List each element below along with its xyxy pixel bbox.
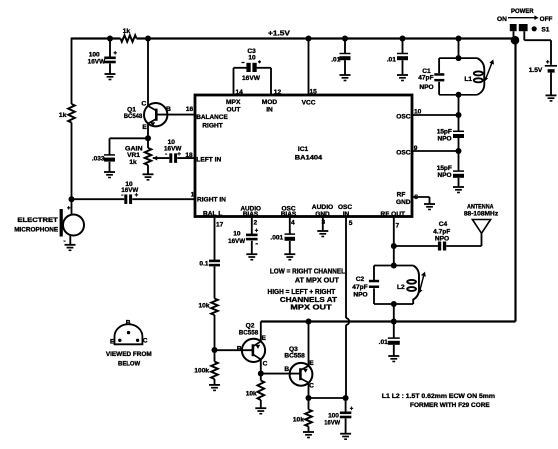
svg-text:100k: 100k bbox=[194, 367, 209, 374]
svg-text:OSC: OSC bbox=[396, 150, 411, 157]
svg-text:16VW: 16VW bbox=[228, 238, 246, 245]
svg-text:IN: IN bbox=[266, 107, 273, 114]
svg-text:10k: 10k bbox=[246, 391, 257, 398]
svg-text:.01: .01 bbox=[331, 56, 340, 63]
svg-text:16VW: 16VW bbox=[242, 75, 261, 82]
svg-text:NPO: NPO bbox=[419, 84, 433, 91]
svg-text:+: + bbox=[177, 151, 181, 158]
svg-text:E: E bbox=[309, 360, 314, 367]
svg-text:LEFT IN: LEFT IN bbox=[196, 157, 221, 164]
svg-text:.001: .001 bbox=[270, 235, 283, 242]
svg-text:+: + bbox=[255, 229, 259, 235]
svg-text:IC1: IC1 bbox=[298, 146, 309, 153]
svg-text:9: 9 bbox=[414, 145, 418, 152]
svg-text:BC548: BC548 bbox=[124, 113, 143, 120]
svg-text:NPO: NPO bbox=[353, 292, 367, 299]
svg-text:Q2: Q2 bbox=[246, 322, 255, 329]
svg-text:10: 10 bbox=[233, 231, 241, 238]
svg-text:10: 10 bbox=[414, 109, 422, 116]
svg-text:+1.5V: +1.5V bbox=[268, 31, 290, 38]
svg-text:B: B bbox=[166, 106, 171, 113]
svg-text:E: E bbox=[110, 338, 115, 345]
svg-text:NPO: NPO bbox=[435, 236, 449, 243]
svg-text:18: 18 bbox=[185, 152, 193, 159]
svg-text:OSC: OSC bbox=[338, 204, 352, 211]
svg-text:LOW = RIGHT CHANNEL: LOW = RIGHT CHANNEL bbox=[270, 268, 346, 275]
svg-text:NPO: NPO bbox=[437, 172, 451, 179]
svg-text:B: B bbox=[126, 320, 131, 327]
svg-text:1k: 1k bbox=[129, 159, 137, 166]
svg-text:L2: L2 bbox=[397, 284, 405, 291]
svg-text:.01: .01 bbox=[379, 339, 388, 346]
svg-text:+: + bbox=[113, 50, 117, 57]
svg-text:+: + bbox=[67, 205, 71, 212]
svg-text:16: 16 bbox=[186, 106, 194, 113]
svg-text:C: C bbox=[141, 100, 146, 107]
svg-text:C: C bbox=[263, 361, 268, 368]
svg-text:4: 4 bbox=[291, 220, 295, 227]
svg-text:+: + bbox=[546, 59, 550, 66]
svg-text:AT MPX OUT: AT MPX OUT bbox=[295, 277, 340, 284]
svg-text:47pF: 47pF bbox=[418, 75, 433, 82]
svg-text:ANTENNA: ANTENNA bbox=[467, 204, 494, 211]
svg-text:10k: 10k bbox=[293, 417, 304, 424]
svg-text:15pF: 15pF bbox=[437, 128, 452, 135]
svg-text:IN: IN bbox=[343, 211, 350, 218]
svg-text:RF: RF bbox=[397, 192, 406, 199]
svg-text:C: C bbox=[309, 383, 314, 390]
svg-text:+: + bbox=[350, 407, 354, 413]
svg-text:MPX: MPX bbox=[226, 99, 241, 106]
svg-text:BIAS: BIAS bbox=[281, 211, 297, 218]
svg-text:L1: L1 bbox=[464, 76, 472, 83]
svg-text:ON: ON bbox=[497, 16, 507, 23]
svg-text:POWER: POWER bbox=[511, 8, 534, 15]
svg-text:2: 2 bbox=[254, 220, 258, 227]
svg-text:5: 5 bbox=[349, 220, 353, 227]
svg-text:0.1: 0.1 bbox=[199, 260, 208, 267]
svg-text:+: + bbox=[135, 192, 139, 199]
svg-text:1k: 1k bbox=[123, 28, 131, 35]
svg-text:12: 12 bbox=[274, 89, 282, 96]
svg-text:FORMER WITH F29 CORE: FORMER WITH F29 CORE bbox=[410, 402, 490, 409]
svg-text:10k: 10k bbox=[198, 303, 209, 310]
svg-text:CHANNELS AT: CHANNELS AT bbox=[280, 297, 338, 304]
svg-text:ELECTRET: ELECTRET bbox=[17, 217, 57, 224]
svg-text:16VW: 16VW bbox=[324, 419, 341, 426]
svg-text:BC558: BC558 bbox=[284, 352, 305, 359]
svg-text:AUDIO: AUDIO bbox=[312, 204, 334, 211]
svg-text:C: C bbox=[143, 338, 148, 345]
svg-text:17: 17 bbox=[216, 221, 224, 228]
svg-text:RF OUT: RF OUT bbox=[381, 211, 406, 218]
svg-text:BC558: BC558 bbox=[239, 329, 259, 336]
svg-text:MPX OUT: MPX OUT bbox=[290, 305, 332, 312]
svg-text:RIGHT: RIGHT bbox=[202, 123, 223, 130]
svg-text:OFF: OFF bbox=[540, 16, 553, 23]
svg-text:C2: C2 bbox=[356, 276, 365, 283]
svg-text:MOD: MOD bbox=[262, 99, 278, 106]
svg-text:BELOW: BELOW bbox=[118, 360, 141, 367]
svg-text:BA1404: BA1404 bbox=[295, 155, 323, 162]
svg-text:1k: 1k bbox=[59, 112, 67, 119]
svg-text:GND: GND bbox=[315, 211, 330, 218]
svg-text:E: E bbox=[261, 335, 266, 342]
svg-text:E: E bbox=[142, 124, 147, 131]
svg-text:BAL L: BAL L bbox=[203, 211, 222, 218]
svg-text:1.5V: 1.5V bbox=[529, 67, 543, 74]
svg-text:14: 14 bbox=[236, 89, 244, 96]
svg-text:B: B bbox=[237, 345, 242, 352]
svg-text:VCC: VCC bbox=[302, 100, 316, 107]
svg-text:.01: .01 bbox=[387, 56, 396, 63]
svg-text:OSC: OSC bbox=[396, 114, 411, 121]
svg-text:VIEWED FROM: VIEWED FROM bbox=[106, 351, 152, 358]
svg-text:MICROPHONE: MICROPHONE bbox=[14, 226, 59, 233]
svg-text:47pF: 47pF bbox=[352, 284, 367, 291]
svg-text:GND: GND bbox=[396, 199, 411, 206]
svg-text:C4: C4 bbox=[439, 221, 448, 228]
svg-text:RIGHT IN: RIGHT IN bbox=[197, 196, 226, 203]
svg-text:.033: .033 bbox=[92, 156, 105, 163]
svg-text:BALANCE: BALANCE bbox=[196, 114, 228, 121]
svg-text:L1 L2 : 1.5T 0.62mm ECW ON 5m: L1 L2 : 1.5T 0.62mm ECW ON 5mm bbox=[382, 393, 495, 400]
svg-text:HIGH = LEFT + RIGHT: HIGH = LEFT + RIGHT bbox=[268, 289, 336, 296]
svg-text:NPO: NPO bbox=[437, 136, 451, 143]
svg-text:8: 8 bbox=[414, 194, 418, 201]
svg-text:10: 10 bbox=[248, 54, 256, 61]
svg-text:88-108MHz: 88-108MHz bbox=[464, 211, 499, 218]
svg-text:7: 7 bbox=[396, 222, 400, 229]
svg-text:B: B bbox=[284, 366, 289, 373]
svg-text:15: 15 bbox=[310, 89, 318, 96]
svg-text:16VW: 16VW bbox=[88, 58, 106, 65]
svg-text:BIAS: BIAS bbox=[243, 211, 259, 218]
svg-text:OUT: OUT bbox=[227, 107, 241, 114]
svg-text:1: 1 bbox=[191, 192, 195, 199]
svg-text:3: 3 bbox=[322, 219, 326, 226]
svg-text:4.7pF: 4.7pF bbox=[433, 229, 450, 236]
svg-text:S1: S1 bbox=[541, 26, 549, 33]
